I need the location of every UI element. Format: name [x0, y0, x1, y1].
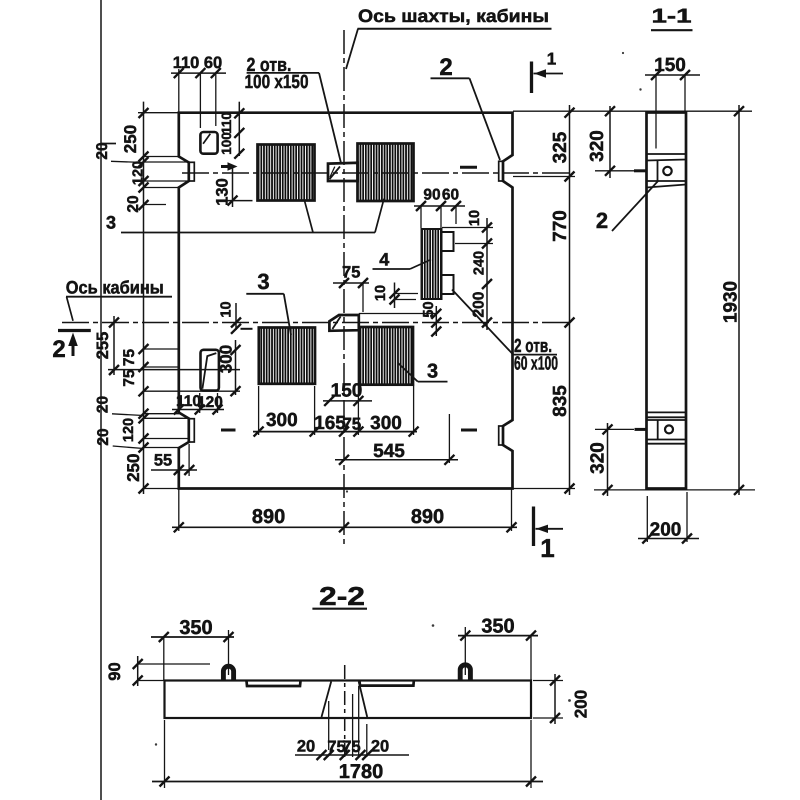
svg-text:545: 545 — [373, 441, 405, 462]
svg-text:Ось шахты, кабины: Ось шахты, кабины — [358, 6, 549, 26]
svg-text:Ось кабины: Ось кабины — [66, 278, 164, 298]
svg-text:10: 10 — [219, 301, 235, 317]
svg-text:890: 890 — [252, 506, 285, 528]
svg-text:20: 20 — [95, 428, 112, 445]
svg-text:55: 55 — [154, 452, 172, 470]
svg-text:90: 90 — [423, 187, 440, 204]
svg-text:255: 255 — [94, 332, 112, 360]
svg-text:100 x150: 100 x150 — [245, 72, 309, 93]
svg-text:320: 320 — [588, 442, 609, 474]
svg-text:3: 3 — [427, 361, 438, 383]
svg-text:325: 325 — [550, 131, 571, 163]
svg-text:300: 300 — [266, 410, 298, 431]
svg-text:2: 2 — [596, 208, 608, 233]
svg-text:1930: 1930 — [721, 281, 742, 323]
svg-text:2: 2 — [439, 54, 452, 81]
svg-text:2: 2 — [52, 336, 65, 363]
svg-text:110: 110 — [173, 54, 200, 72]
svg-text:320: 320 — [587, 130, 608, 162]
svg-text:130: 130 — [214, 178, 232, 206]
svg-text:200: 200 — [471, 292, 488, 318]
svg-text:3: 3 — [106, 213, 116, 233]
svg-text:1-1: 1-1 — [652, 6, 692, 28]
svg-text:250: 250 — [124, 454, 143, 482]
svg-text:75: 75 — [121, 369, 138, 387]
svg-text:10: 10 — [373, 285, 389, 301]
svg-text:250: 250 — [121, 125, 140, 153]
svg-text:200: 200 — [650, 520, 682, 541]
svg-text:4: 4 — [379, 250, 389, 270]
svg-text:350: 350 — [481, 616, 514, 638]
svg-text:240: 240 — [472, 251, 488, 275]
svg-text:20: 20 — [94, 142, 111, 159]
svg-text:100: 100 — [219, 132, 234, 155]
svg-text:120: 120 — [131, 161, 147, 185]
svg-text:835: 835 — [550, 385, 571, 417]
svg-text:20: 20 — [125, 195, 142, 212]
svg-text:2-2: 2-2 — [319, 581, 365, 611]
svg-text:770: 770 — [550, 210, 571, 242]
svg-text:120: 120 — [121, 418, 137, 442]
svg-text:1: 1 — [540, 533, 554, 563]
svg-text:350: 350 — [179, 617, 212, 639]
svg-text:3: 3 — [257, 269, 269, 294]
svg-text:110: 110 — [219, 112, 234, 134]
svg-text:75: 75 — [121, 349, 138, 367]
svg-text:90: 90 — [106, 662, 124, 680]
svg-text:1: 1 — [547, 50, 556, 69]
svg-text:200: 200 — [572, 690, 591, 718]
svg-text:10: 10 — [467, 210, 483, 226]
svg-text:890: 890 — [411, 506, 444, 528]
svg-text:1780: 1780 — [339, 761, 384, 783]
svg-text:150: 150 — [331, 381, 363, 402]
svg-text:20: 20 — [297, 738, 315, 756]
svg-text:20: 20 — [95, 396, 112, 413]
svg-text:20: 20 — [371, 738, 389, 756]
svg-text:300: 300 — [217, 345, 236, 373]
svg-text:75: 75 — [342, 264, 360, 282]
svg-text:60 x100: 60 x100 — [514, 354, 558, 375]
